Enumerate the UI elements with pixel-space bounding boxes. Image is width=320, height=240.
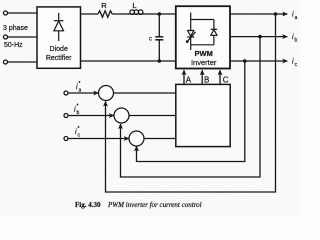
- svg-text:a: a: [79, 88, 82, 94]
- svg-text:*: *: [79, 81, 81, 87]
- svg-text:PWM inverter for current contr: PWM inverter for current control: [107, 201, 202, 209]
- capacitor C branch wire top: [158, 14, 160, 36]
- wire phase-1 to rectifier: [8, 12, 38, 14]
- gating wire C: [219, 70, 221, 84]
- wire S3 to controller: [144, 138, 176, 140]
- wire S1 to controller: [113, 92, 176, 94]
- svg-text:R: R: [101, 1, 107, 10]
- svg-text:A: A: [186, 76, 192, 85]
- svg-text:Fig. 4.30: Fig. 4.30: [75, 201, 101, 209]
- svg-text:*: *: [78, 126, 80, 132]
- diode rectifier box: [37, 7, 81, 68]
- terminal phase-2: [4, 35, 8, 39]
- terminal ref b: [64, 114, 68, 118]
- junction dot line c: [243, 59, 247, 63]
- terminal phase-1: [4, 11, 8, 15]
- wire output line a: [230, 13, 287, 15]
- resistor R: [98, 11, 112, 17]
- svg-text:Rectifier: Rectifier: [46, 55, 72, 62]
- gating wire A: [183, 70, 185, 84]
- wire ref c to summer: [68, 138, 129, 140]
- junction dot top of C: [158, 12, 162, 16]
- svg-text:Diode: Diode: [50, 46, 68, 53]
- thyristor Q1 (left device): [186, 31, 196, 43]
- feedback wire from line a: [106, 14, 276, 192]
- svg-text:a: a: [295, 15, 298, 21]
- capacitor C branch wire bottom: [158, 40, 160, 61]
- svg-text:b: b: [295, 38, 298, 44]
- diode D1 inside rectifier: [54, 13, 64, 41]
- wire phase-2 to rectifier: [8, 36, 38, 38]
- junction dot line b: [258, 35, 262, 39]
- svg-text:B: B: [204, 76, 209, 85]
- wire output line b: [230, 36, 287, 38]
- junction dot bottom of C: [158, 59, 162, 63]
- summing junction S1: [99, 86, 114, 101]
- wire output line c: [230, 60, 287, 62]
- svg-text:c: c: [149, 37, 152, 43]
- PWM inverter box U1: [176, 6, 230, 68]
- feedback wire from line c: [137, 61, 245, 162]
- svg-text:b: b: [77, 110, 80, 116]
- gating wire B: [201, 70, 203, 84]
- feedback wire from line b: [121, 37, 261, 177]
- terminal ref c: [64, 137, 68, 141]
- summing junction S2: [114, 108, 129, 123]
- terminal ref a: [64, 91, 68, 95]
- svg-text:C: C: [223, 76, 229, 85]
- capacitor C plates: [155, 36, 163, 38]
- wire R to L: [112, 13, 128, 15]
- wire ref a to summer: [68, 92, 98, 94]
- svg-text:Inverter: Inverter: [191, 58, 217, 67]
- svg-text:3 phase: 3 phase: [3, 25, 28, 32]
- summing junction S3: [129, 131, 144, 146]
- diode D2 (right device): [211, 29, 218, 35]
- svg-text:*: *: [77, 104, 79, 110]
- wire bottom rail rectifier to inverter: [81, 60, 176, 62]
- inductor L: [128, 10, 144, 15]
- wire ref b to summer: [68, 115, 114, 117]
- svg-text:PWM: PWM: [195, 49, 213, 58]
- inverter internal bus wires: [191, 13, 214, 51]
- svg-text:50-Hz: 50-Hz: [4, 42, 23, 49]
- junction dot line a: [274, 12, 278, 16]
- wire phase-3 to rectifier: [8, 61, 38, 63]
- svg-text:L: L: [132, 1, 136, 10]
- wire top rail rectifier to R: [81, 13, 99, 15]
- terminal phase-3: [4, 60, 8, 64]
- wire S2 to controller: [129, 115, 176, 117]
- controller box: [176, 84, 230, 146]
- wire L to inverter: [144, 13, 176, 15]
